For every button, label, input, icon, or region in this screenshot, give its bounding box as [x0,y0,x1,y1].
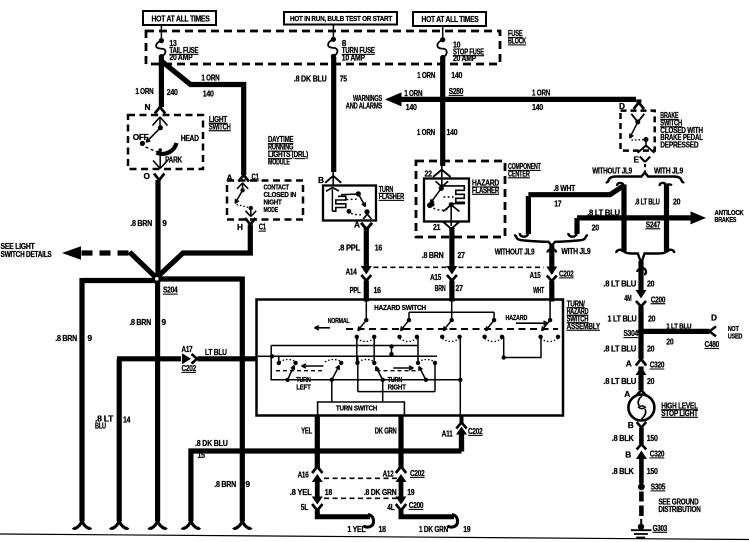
svg-text:USED: USED [728,331,743,340]
svg-text:BLOCK: BLOCK [508,36,526,46]
svg-text:.8 WHT: .8 WHT [553,183,575,193]
svg-text:.8 LT BLU: .8 LT BLU [587,208,620,218]
svg-text:20 AMP: 20 AMP [453,53,477,63]
svg-text:9: 9 [88,333,93,343]
svg-text:WITHOUT JL9: WITHOUT JL9 [592,167,633,176]
svg-text:.8 BRN: .8 BRN [129,317,151,327]
svg-text:17: 17 [554,199,562,209]
svg-text:B: B [625,450,631,460]
svg-text:20: 20 [647,376,655,386]
svg-text:WHT: WHT [533,285,544,295]
svg-text:O: O [144,171,151,181]
svg-text:20: 20 [666,337,674,347]
svg-text:BLU: BLU [95,421,106,431]
svg-text:PARK: PARK [165,156,182,165]
svg-text:20: 20 [647,343,655,353]
svg-text:27: 27 [456,283,464,293]
svg-text:C202: C202 [410,468,425,478]
svg-text:5L: 5L [301,502,308,512]
svg-text:18: 18 [325,487,333,497]
svg-text:TURN SWITCH: TURN SWITCH [336,404,378,413]
svg-text:C480: C480 [705,339,720,349]
svg-text:240: 240 [167,87,178,97]
svg-text:A15: A15 [530,270,541,280]
svg-text:1 DK GRN: 1 DK GRN [419,524,448,534]
svg-text:HOT AT ALL TIMES: HOT AT ALL TIMES [422,15,479,24]
svg-text:FLASHER: FLASHER [379,191,405,201]
svg-text:A14: A14 [346,267,357,277]
svg-text:.8 YEL: .8 YEL [290,487,312,497]
svg-text:A: A [626,359,632,369]
svg-text:15: 15 [198,450,206,460]
svg-text:150: 150 [647,433,658,443]
svg-text:16: 16 [374,285,382,295]
svg-text:9: 9 [162,218,167,228]
svg-text:N: N [145,102,151,112]
svg-text:20 AMP: 20 AMP [169,52,193,62]
svg-text:OFF: OFF [133,133,149,142]
svg-text:20: 20 [673,197,681,207]
svg-text:S304: S304 [624,328,639,338]
svg-text:A: A [354,220,360,230]
svg-text:C202: C202 [182,363,197,373]
svg-text:MODULE: MODULE [268,157,290,167]
svg-text:10 AMP: 10 AMP [342,52,366,62]
svg-text:A12: A12 [383,469,394,479]
svg-text:.8 DK BLU: .8 DK BLU [195,438,228,448]
svg-text:.8 BRN: .8 BRN [55,333,77,343]
svg-text:16: 16 [375,242,383,252]
svg-text:C202: C202 [468,426,483,436]
svg-text:9: 9 [162,317,167,327]
svg-text:YEL: YEL [301,426,312,436]
svg-text:.8 DK GRN: .8 DK GRN [364,487,397,497]
svg-text:B: B [628,420,634,430]
svg-text:CENTER: CENTER [508,168,530,178]
svg-text:WITH JL9: WITH JL9 [654,167,684,176]
svg-text:BRN: BRN [435,283,446,293]
svg-text:.8 BLK: .8 BLK [612,466,634,476]
svg-text:140: 140 [447,127,458,137]
svg-text:20: 20 [648,313,656,323]
svg-text:HEAD: HEAD [181,134,199,143]
svg-text:.8 BRN: .8 BRN [422,250,444,260]
svg-text:27: 27 [458,250,466,260]
svg-text:HOT IN RUN, BULB TEST OR START: HOT IN RUN, BULB TEST OR START [290,14,393,23]
svg-text:B: B [318,175,324,185]
svg-text:.8 BLK: .8 BLK [612,433,634,443]
svg-text:1 LT BLU: 1 LT BLU [608,313,637,323]
svg-text:140: 140 [451,70,462,80]
svg-text:C200: C200 [651,294,666,304]
svg-text:HAZARD SWITCH: HAZARD SWITCH [374,303,426,312]
svg-text:HOT AT ALL TIMES: HOT AT ALL TIMES [152,14,210,23]
svg-text:A11: A11 [442,429,453,439]
svg-text:.8 DK BLU: .8 DK BLU [294,73,327,83]
svg-text:22: 22 [425,169,433,179]
svg-text:1 LT BLU: 1 LT BLU [666,322,691,331]
svg-text:140: 140 [532,102,543,112]
svg-text:RIGHT: RIGHT [388,383,407,392]
svg-text:.8 PPL: .8 PPL [338,242,360,252]
svg-text:LT BLU: LT BLU [205,347,227,357]
svg-text:19: 19 [407,487,415,497]
svg-text:SWITCH DETAILS: SWITCH DETAILS [1,250,52,259]
svg-text:LEFT: LEFT [296,383,311,392]
svg-text:9: 9 [246,479,251,489]
svg-text:A15: A15 [430,272,441,282]
svg-text:1 ORN: 1 ORN [404,88,422,98]
svg-text:.8 LT BLU: .8 LT BLU [635,197,660,207]
svg-text:.8 LT BLU: .8 LT BLU [603,343,636,353]
svg-text:1 ORN: 1 ORN [417,70,435,80]
svg-text:20: 20 [647,279,655,289]
svg-text:.8 LT BLU: .8 LT BLU [603,376,636,386]
svg-text:C200: C200 [409,500,424,510]
svg-text:FLASHER: FLASHER [472,185,499,195]
svg-text:.8 LT BLU: .8 LT BLU [603,279,636,289]
svg-text:G303: G303 [653,523,668,533]
svg-text:H: H [237,222,243,232]
svg-text:SWITCH: SWITCH [209,121,231,131]
svg-text:NORMAL: NORMAL [328,316,350,325]
svg-text:18: 18 [379,524,387,534]
svg-text:STOP LIGHT: STOP LIGHT [661,408,698,418]
svg-text:S204: S204 [163,285,178,295]
svg-text:.8 BRN: .8 BRN [130,218,152,228]
svg-text:MODE: MODE [264,205,279,214]
svg-text:4L: 4L [387,502,394,512]
svg-text:PPL: PPL [350,285,361,295]
svg-text:E: E [634,155,640,165]
svg-text:ASSEMBLY: ASSEMBLY [567,321,601,331]
svg-text:DK GRN: DK GRN [375,426,397,436]
svg-text:75: 75 [340,73,348,83]
svg-text:140: 140 [406,102,417,112]
svg-text:1 ORN: 1 ORN [417,127,435,137]
svg-text:4M: 4M [624,293,631,303]
svg-text:.8 BRN: .8 BRN [214,479,236,489]
svg-text:DEPRESSED: DEPRESSED [660,140,698,150]
svg-text:A: A [624,389,630,399]
svg-text:D: D [711,313,717,323]
svg-text:WITH JL9: WITH JL9 [561,247,591,256]
svg-text:AND ALARMS: AND ALARMS [346,101,382,110]
svg-text:C320: C320 [650,449,665,459]
svg-text:1 YEL: 1 YEL [347,524,365,534]
svg-text:HAZARD: HAZARD [506,313,528,322]
svg-text:C320: C320 [650,360,665,370]
svg-text:1 ORN: 1 ORN [201,73,219,83]
svg-text:A16: A16 [298,470,309,480]
svg-text:19: 19 [463,524,471,534]
svg-text:14: 14 [123,415,131,425]
svg-text:C202: C202 [559,269,574,279]
svg-text:BRAKES: BRAKES [715,215,737,224]
svg-text:1 ORN: 1 ORN [532,88,550,98]
svg-text:1 ORN: 1 ORN [135,86,153,96]
svg-text:WITHOUT JL9: WITHOUT JL9 [495,248,536,257]
svg-text:150: 150 [647,466,658,476]
svg-text:20: 20 [592,223,600,233]
svg-text:C1: C1 [259,222,267,232]
svg-text:DISTRIBUTION: DISTRIBUTION [658,505,701,514]
svg-text:S247: S247 [646,219,661,229]
svg-text:S280: S280 [449,86,464,96]
svg-text:A17: A17 [182,344,193,354]
svg-text:21: 21 [433,222,441,232]
svg-text:S305: S305 [651,482,666,492]
svg-text:140: 140 [203,89,214,99]
